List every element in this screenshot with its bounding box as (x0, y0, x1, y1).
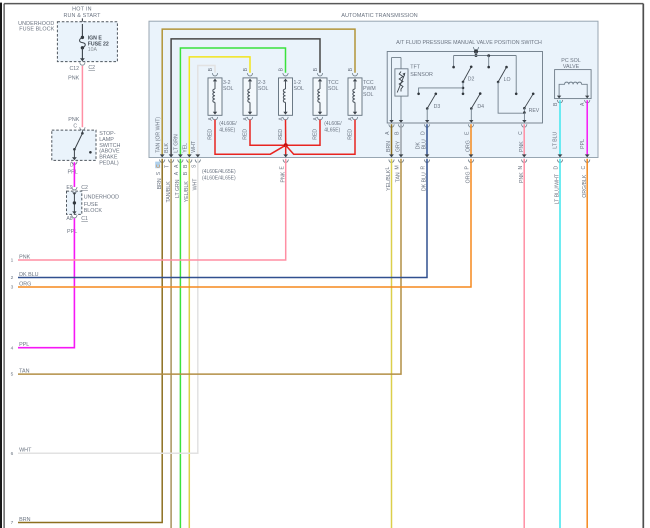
svg-text:VALVE: VALVE (563, 64, 580, 70)
underhood fuse block (top) (18, 21, 117, 62)
wire RED 3-2 SOL return (215, 120, 286, 154)
wire BRN pin A switch to case connector (385, 124, 394, 156)
svg-text:SOL: SOL (328, 86, 338, 92)
net label 5 TAN (11, 369, 30, 378)
svg-text:D2: D2 (468, 77, 475, 83)
svg-text:C: C (73, 124, 77, 130)
case connector exit LT GRN/A (174, 154, 183, 198)
svg-text:BRN: BRN (386, 141, 392, 152)
case connector exit TAN/M (395, 154, 404, 182)
svg-text:PPL: PPL (580, 139, 586, 149)
wire TAN to line 5 (18, 159, 401, 374)
svg-text:5: 5 (11, 372, 14, 378)
bus drop left (452, 56, 455, 69)
svg-text:3: 3 (11, 285, 14, 291)
wire RED 2-3 SOL return (250, 120, 286, 145)
wire DK BLU pin D switch to case connector (416, 124, 430, 156)
svg-text:SENSOR: SENSOR (410, 72, 433, 78)
svg-text:TFT: TFT (410, 65, 421, 71)
svg-text:D: D (554, 166, 560, 170)
case connector exit PNK/E (279, 154, 288, 182)
svg-text:ORG: ORG (466, 140, 472, 152)
svg-text:ORG: ORG (19, 281, 31, 287)
bus drop mid (487, 54, 490, 68)
TFT sensor (389, 58, 433, 123)
svg-text:10A: 10A (88, 47, 98, 53)
svg-text:BLU: BLU (421, 139, 427, 149)
svg-text:C: C (156, 164, 162, 168)
wire YEL/BLK right to bottom (391, 159, 393, 528)
case connector exit PNK/N (518, 154, 527, 183)
junction red bus (284, 143, 288, 147)
case connector exit ORG/BLK/C (581, 154, 590, 197)
svg-text:BLOCK: BLOCK (84, 208, 103, 214)
net label 1 PNK (11, 254, 31, 263)
switch D2 (462, 66, 475, 96)
svg-text:4L65E): 4L65E) (219, 127, 235, 133)
wire PNK fuse to stop lamp switch (68, 66, 85, 130)
wire RED TCC PWM SOL return (286, 120, 355, 154)
case connector exit TAN/BLK/T (165, 154, 174, 202)
svg-text:(4L60E/: (4L60E/ (324, 121, 342, 127)
svg-text:PPL: PPL (19, 342, 29, 348)
wire TAN to TCC PWM SOL (162, 29, 355, 157)
switch D4 (469, 92, 484, 123)
case connector exit BRN/U (155, 154, 165, 189)
case connector exit WHT/S (191, 154, 200, 190)
case connector exit YEL/BLK/L (385, 154, 394, 190)
wire PPL to line 4 (18, 218, 77, 347)
svg-text:4L65E): 4L65E) (324, 127, 340, 133)
wire PNK to line 1 (18, 159, 286, 260)
svg-text:PEDAL): PEDAL) (99, 161, 119, 167)
wire YEL to 2-3 SOL (189, 57, 250, 157)
wire TAN/BLK to bottom (170, 159, 172, 528)
wire WHT to line 6 (18, 159, 198, 453)
underhood fuse block (lower) (67, 191, 120, 214)
svg-text:DK BLU: DK BLU (19, 272, 39, 278)
contact line to D2 (417, 88, 463, 95)
case connector exit ORG/P (465, 154, 474, 183)
solenoid TCC SOL U4 (313, 67, 339, 120)
svg-text:SOL: SOL (363, 92, 373, 98)
svg-text:D4: D4 (477, 104, 484, 110)
svg-text:M: M (395, 165, 401, 169)
fuse IGN E FUSE 22 10A (80, 24, 109, 61)
svg-text:TAN (OR WHT): TAN (OR WHT) (155, 117, 161, 153)
switch bus line (454, 55, 517, 57)
solenoid 2-3 SOL U2 (243, 67, 269, 120)
svg-text:C12: C12 (69, 66, 79, 72)
bus drop right (515, 56, 518, 96)
svg-text:T: T (165, 165, 171, 168)
automatic transmission box (149, 13, 598, 158)
wire LT GRN to bottom (179, 159, 181, 528)
wire DK BLU to line 2 (18, 159, 427, 278)
svg-text:C: C (581, 166, 587, 170)
svg-text:TAN: TAN (19, 369, 29, 375)
svg-text:LT GRN: LT GRN (174, 134, 180, 153)
solenoid TCC PWM SOL U5 (348, 67, 376, 120)
svg-text:SOL: SOL (258, 86, 268, 92)
connector E9 / C2 (66, 185, 88, 191)
svg-text:6: 6 (11, 451, 14, 457)
case connector exit YEL/BLK/B (183, 154, 192, 202)
svg-text:C1: C1 (81, 216, 88, 222)
svg-text:R: R (421, 166, 427, 170)
net label 2 DK BLU (11, 272, 39, 281)
case connector exit LT BLU/WHT/D (554, 154, 563, 204)
svg-text:FUSE BLOCK: FUSE BLOCK (19, 27, 54, 33)
svg-text:RED: RED (278, 129, 284, 140)
svg-text:AUTOMATIC TRANSMISSION: AUTOMATIC TRANSMISSION (341, 13, 417, 19)
wire PPL PC sol A (580, 100, 590, 157)
svg-text:SOL: SOL (294, 86, 304, 92)
connector A8 / C1 (66, 215, 88, 222)
wire BLK to TCC SOL (171, 39, 320, 157)
svg-text:RED: RED (242, 129, 248, 140)
svg-text:D3: D3 (434, 104, 441, 110)
svg-text:2: 2 (11, 275, 14, 281)
wire RED 1-2 SOL return (285, 120, 287, 145)
svg-text:REV: REV (529, 108, 540, 114)
svg-text:PNK: PNK (519, 141, 525, 152)
net label 3 ORG (11, 281, 32, 290)
svg-text:(4L60E/4L65E): (4L60E/4L65E) (202, 176, 236, 182)
connector C12 / C2 (69, 62, 95, 72)
svg-text:(4L60E/: (4L60E/ (219, 121, 237, 127)
svg-text:7: 7 (11, 520, 14, 526)
wire LT BLU PC sol B (553, 100, 563, 157)
net label 6 WHT (11, 448, 33, 457)
switch LO (497, 66, 525, 113)
svg-text:LO: LO (504, 77, 511, 83)
wire ORG/BLK to bottom (586, 159, 588, 528)
svg-text:WHT: WHT (19, 448, 32, 454)
svg-text:C: C (518, 131, 524, 135)
note 4L60E/4L65E at TCC SOL (324, 121, 342, 133)
svg-text:D: D (421, 131, 427, 135)
wire YEL/BLK to bottom (188, 159, 190, 528)
wire BRN to line 7 (18, 159, 162, 523)
svg-text:PNK: PNK (68, 117, 79, 123)
svg-text:BLK: BLK (164, 142, 170, 152)
wire LT GRN to 1-2 SOL (180, 48, 285, 157)
svg-text:PPL: PPL (67, 229, 77, 235)
hot in run and start feed (63, 6, 101, 24)
wire PPL stop lamp switch to fuse block (68, 162, 78, 188)
net label 4 PPL (11, 342, 30, 351)
svg-text:N: N (518, 166, 524, 170)
svg-text:LT BLU: LT BLU (553, 131, 559, 148)
top connector of switch (473, 47, 478, 57)
wire RED junction to case connector (285, 145, 287, 156)
svg-text:BRN: BRN (19, 517, 30, 523)
wire GRY pin B switch to case connector (395, 124, 404, 156)
svg-text:A8: A8 (66, 216, 72, 222)
wire PNK N to bottom (523, 159, 525, 528)
svg-text:PNK: PNK (19, 254, 30, 260)
switch REV (522, 93, 540, 123)
svg-text:(4L60E/4L65E): (4L60E/4L65E) (202, 169, 236, 175)
svg-text:PPL: PPL (68, 170, 78, 176)
svg-text:4: 4 (11, 345, 14, 351)
svg-text:L: L (385, 167, 391, 170)
wire ORG to line 3 (18, 159, 471, 287)
svg-text:WHT: WHT (191, 140, 197, 153)
note 4L60E/4L65E below case connector (202, 169, 236, 181)
svg-text:RED: RED (312, 129, 318, 140)
wire WHT to 3-2 SOL (198, 66, 215, 157)
svg-text:C2: C2 (81, 185, 88, 191)
PC SOL valve (555, 58, 592, 99)
svg-text:A/T FLUID PRESSURE MANUAL VALV: A/T FLUID PRESSURE MANUAL VALVE POSITION… (396, 40, 542, 46)
wire RED TCC SOL return (286, 120, 320, 145)
svg-text:SOL: SOL (223, 86, 233, 92)
svg-text:UNDERHOOD: UNDERHOOD (84, 194, 119, 200)
wire ORG pin E switch to case connector (465, 124, 474, 156)
note 4L60E/4L65E at 3-2 SOL (219, 121, 237, 133)
wire LT BLU/WHT to bottom (559, 159, 561, 528)
wire PNK pin C switch to case connector (518, 124, 527, 156)
solenoid 3-2 SOL U1 (208, 67, 234, 120)
svg-text:1: 1 (11, 258, 14, 264)
svg-text:PNK: PNK (68, 75, 79, 81)
A/T fluid pressure manual valve position switch box (387, 40, 542, 123)
svg-text:C2: C2 (88, 65, 95, 71)
net label 7 BRN (11, 517, 31, 526)
svg-text:YEL: YEL (182, 143, 188, 153)
switch D3 (425, 93, 440, 123)
stop-lamp switch (52, 130, 121, 166)
svg-text:FUSE: FUSE (84, 202, 99, 208)
svg-text:HOT IN: HOT IN (72, 6, 92, 12)
solenoid 1-2 SOL U3 (278, 67, 304, 120)
case connector exit DK BLU/R (421, 154, 430, 191)
svg-text:GRY: GRY (396, 140, 402, 152)
svg-text:RED: RED (347, 129, 353, 140)
svg-text:RED: RED (207, 129, 213, 140)
svg-text:RUN & START: RUN & START (63, 13, 101, 19)
